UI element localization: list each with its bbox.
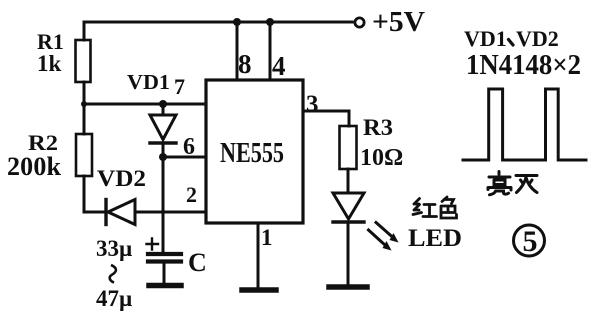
svg-text:5: 5 bbox=[523, 225, 538, 258]
ground (pin 1) bbox=[242, 287, 276, 293]
svg-text:1k: 1k bbox=[37, 51, 62, 76]
hanzi liang (bright) bbox=[488, 172, 511, 195]
resistor R1 bbox=[76, 40, 91, 82]
LED light arrow 1 bbox=[376, 223, 393, 238]
LED light arrow 2 bbox=[369, 230, 386, 246]
svg-text:8: 8 bbox=[238, 49, 252, 79]
waveform pulses bbox=[463, 89, 586, 160]
wire pin 8 bbox=[236, 22, 239, 80]
diode VD1 triangle bbox=[150, 115, 176, 140]
wire VD1 top lead bbox=[162, 104, 165, 115]
svg-text:47µ: 47µ bbox=[96, 286, 132, 311]
junction dot VD1 top bbox=[159, 100, 167, 108]
svg-text:4: 4 bbox=[272, 51, 286, 81]
wire R1 bottom to node A bbox=[83, 82, 86, 104]
ground (LED) bbox=[329, 284, 367, 290]
svg-text:VD2: VD2 bbox=[97, 166, 146, 191]
frame circle of figure number 5 bbox=[514, 225, 545, 256]
wire VD1 bottom lead to node B bbox=[162, 143, 165, 157]
svg-text:VD1: VD1 bbox=[127, 70, 170, 94]
wire top +5V rail bbox=[84, 21, 352, 24]
svg-text:VD2: VD2 bbox=[516, 26, 559, 51]
resistor R2 bbox=[76, 134, 92, 176]
hanzi mie (off) bbox=[516, 176, 537, 193]
diode VD2 cathode bar bbox=[104, 200, 107, 225]
wire capacitor to ground bbox=[163, 263, 166, 284]
wire R2 bottom down and right to VD2 bbox=[84, 176, 103, 212]
LED arrowhead 2 bbox=[383, 241, 392, 251]
LED arrowhead 1 bbox=[390, 233, 399, 243]
wire pin 4 bbox=[269, 22, 272, 80]
wire R3 to LED bbox=[347, 169, 350, 193]
capacitor C plates bbox=[148, 252, 181, 256]
svg-text:LED: LED bbox=[408, 225, 462, 252]
junction dot VD1 bottom node B bbox=[159, 153, 167, 161]
diode VD1 cathode bar bbox=[150, 141, 176, 144]
svg-text:3: 3 bbox=[306, 91, 319, 118]
svg-text:33µ: 33µ bbox=[96, 236, 132, 261]
junction dot rail/pin8 bbox=[233, 18, 241, 26]
op-amp U1 NE555 body bbox=[206, 80, 303, 223]
wire node A down to R2 bbox=[83, 104, 86, 134]
svg-text:NE555: NE555 bbox=[220, 138, 284, 169]
ground (capacitor) bbox=[149, 283, 181, 289]
hanzi se (color) bbox=[441, 197, 457, 218]
LED cathode bar bbox=[333, 220, 364, 223]
wire node A to pin 7 (passes VD1 top) bbox=[84, 103, 206, 106]
hanzi hong (red) bbox=[413, 199, 437, 217]
wire VD2 anode to pin 2 of NE555 bbox=[135, 211, 206, 214]
svg-text:200k: 200k bbox=[7, 152, 62, 181]
svg-text:+5V: +5V bbox=[372, 7, 425, 38]
capacitor polarity + bbox=[147, 239, 159, 250]
svg-text:7: 7 bbox=[174, 74, 185, 99]
wire rail corner down to R1 bbox=[83, 22, 86, 40]
range tilde bbox=[110, 265, 116, 283]
svg-text:10Ω: 10Ω bbox=[360, 145, 403, 171]
terminal circle +5V bbox=[355, 18, 364, 27]
svg-text:1: 1 bbox=[261, 225, 273, 250]
wire node B down to capacitor, crossing pin-2 wire bbox=[162, 157, 165, 252]
svg-text:C: C bbox=[188, 248, 207, 277]
diode VD2 triangle bbox=[108, 200, 135, 225]
junction dot rail/pin4 bbox=[266, 18, 274, 26]
LED triangle bbox=[333, 193, 364, 219]
wire pin 3 to R3 bbox=[303, 111, 349, 126]
svg-text:6: 6 bbox=[183, 134, 195, 160]
wire pin 6 from node B to NE555 bbox=[163, 156, 206, 159]
wire pin 1 to ground bbox=[257, 223, 260, 288]
ideographic comma bbox=[509, 40, 514, 46]
wire LED to ground bbox=[347, 222, 350, 285]
svg-text:R3: R3 bbox=[363, 115, 393, 140]
resistor R3 bbox=[340, 126, 357, 169]
svg-text:1N4148×2: 1N4148×2 bbox=[466, 50, 581, 81]
junction node A bbox=[81, 101, 87, 107]
svg-text:2: 2 bbox=[186, 182, 197, 207]
svg-text:VD1: VD1 bbox=[464, 26, 507, 51]
